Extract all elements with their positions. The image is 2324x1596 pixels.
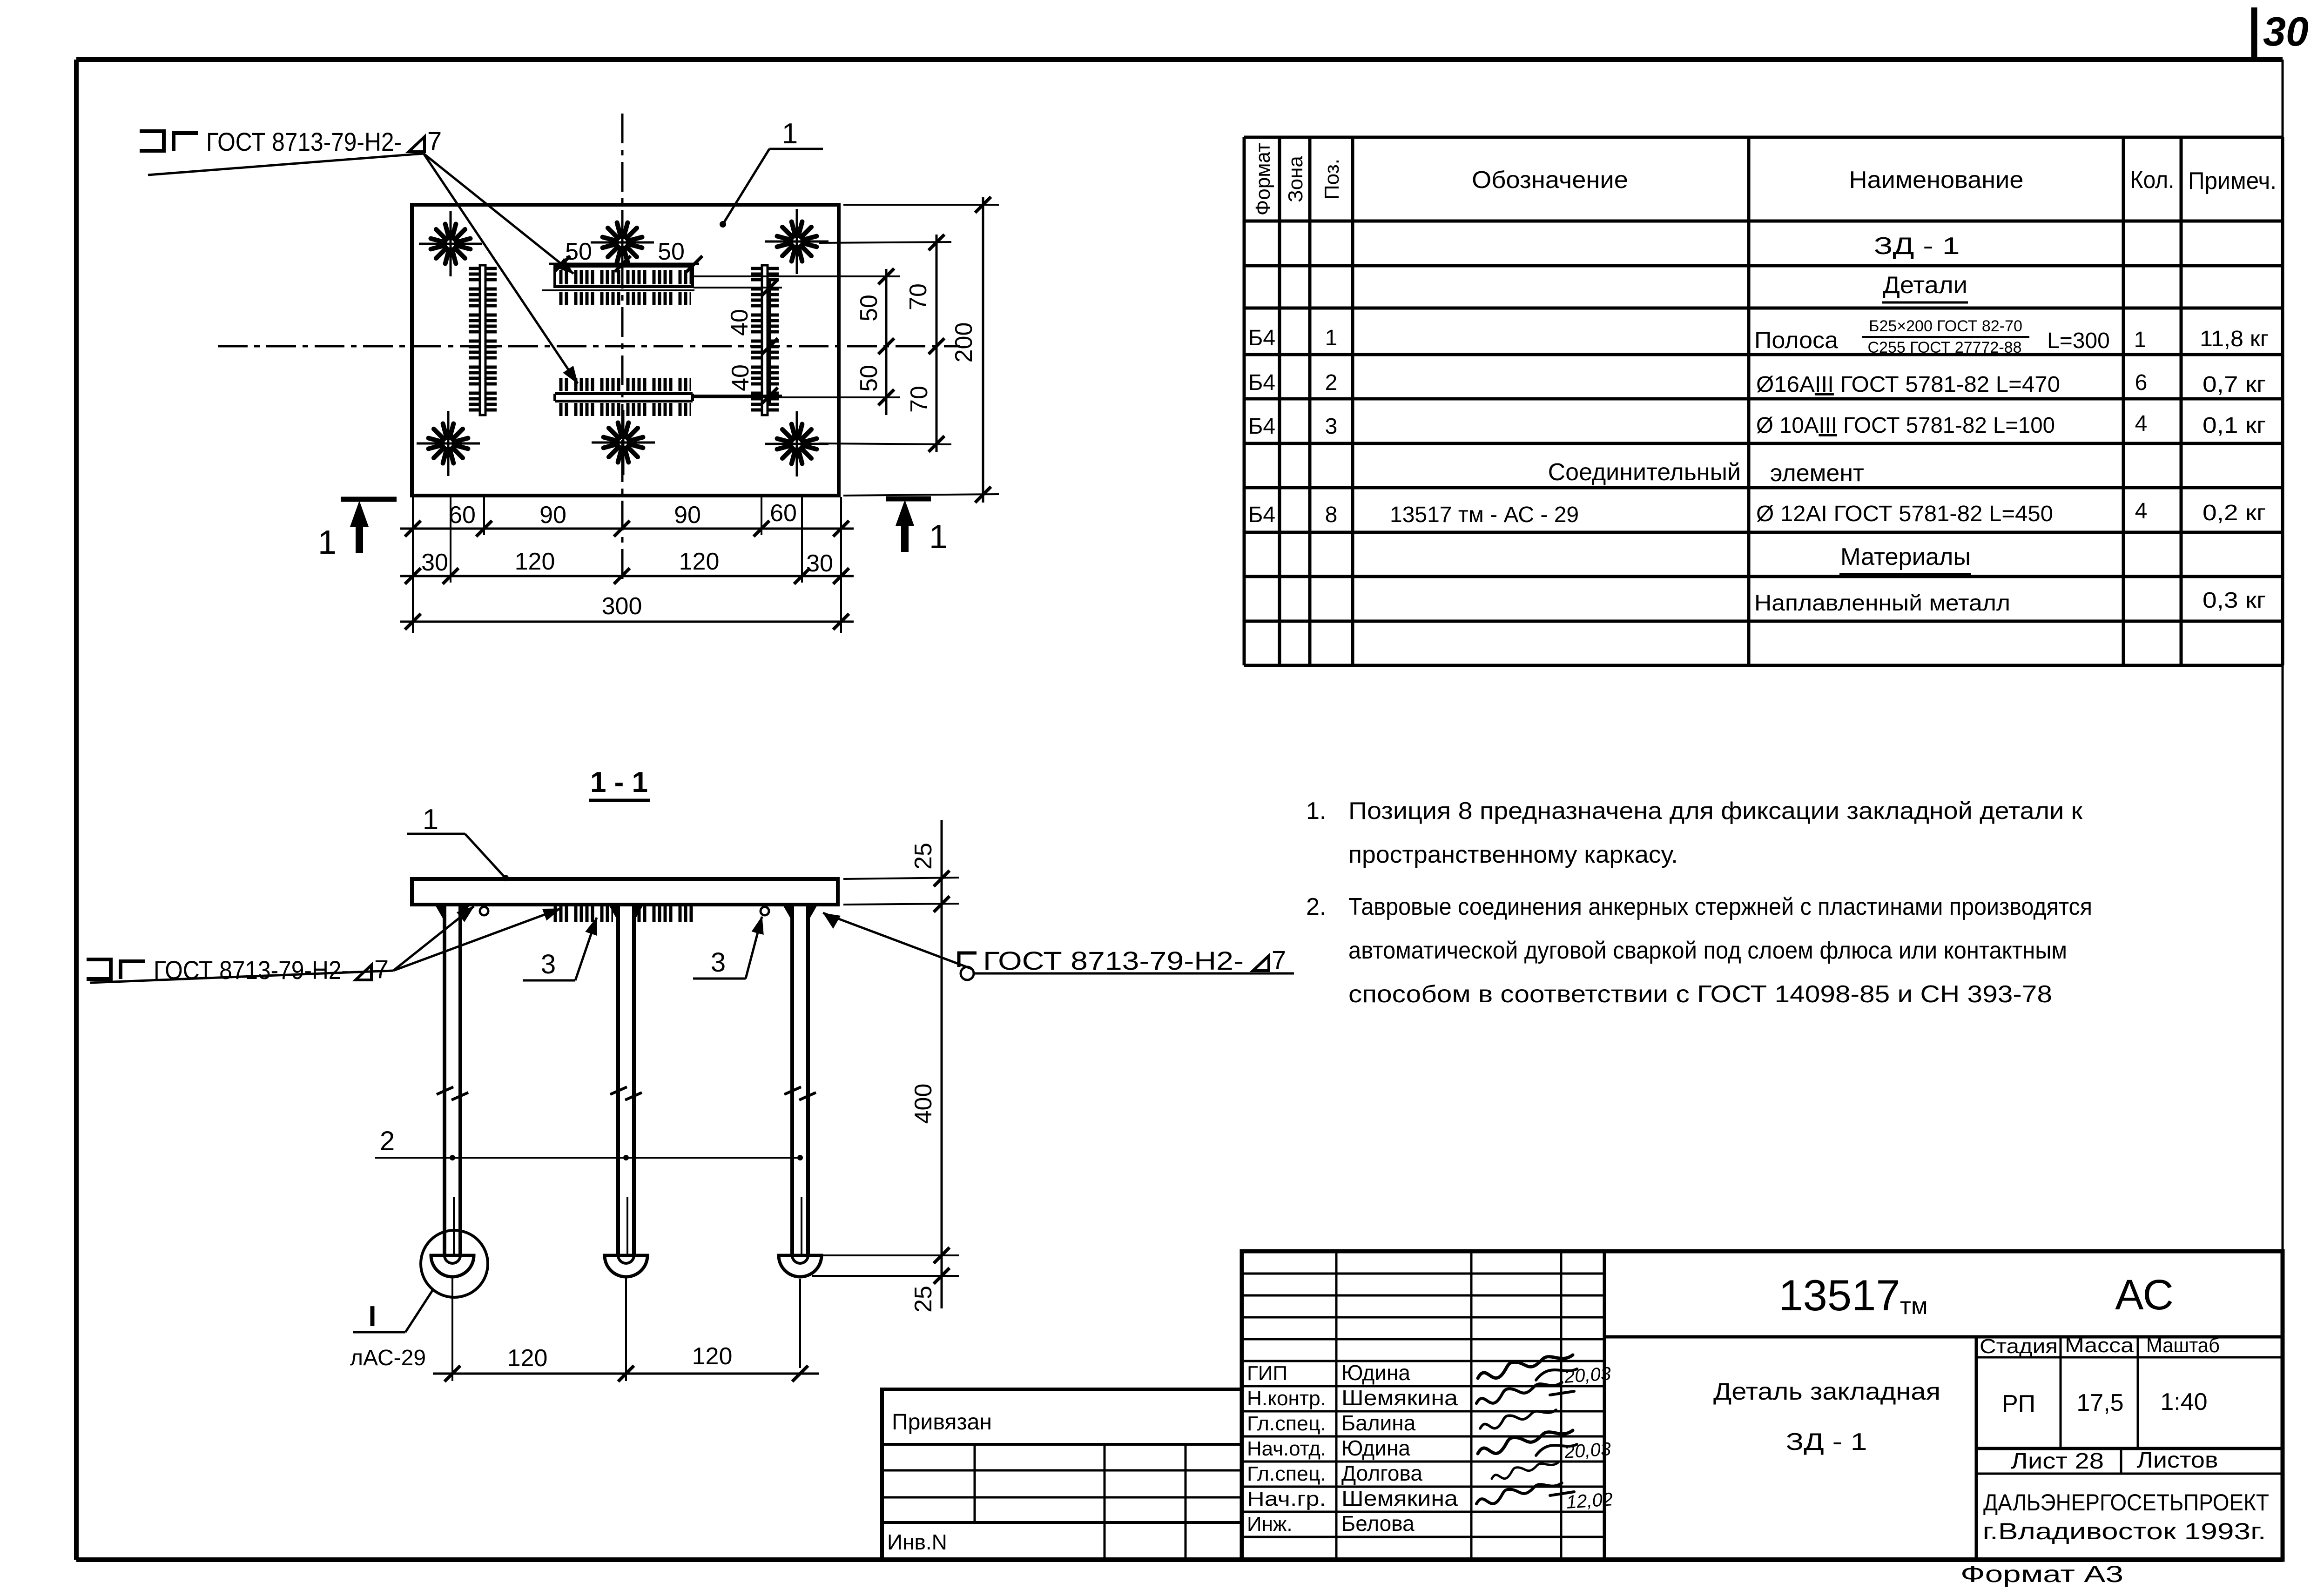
svg-text:60: 60: [449, 502, 476, 529]
dimension row 30 120 120 30: [400, 548, 854, 584]
svg-text:ГОСТ 8713-79-Н2-: ГОСТ 8713-79-Н2-: [983, 946, 1244, 975]
signature dates: [1563, 1363, 1614, 1513]
svg-text:1: 1: [929, 518, 948, 556]
svg-text:6: 6: [2135, 370, 2148, 395]
stage mass scale grid: [1976, 1334, 2283, 1560]
leader callout 2 anchor rods: [375, 1126, 803, 1160]
spec row Detali: [1882, 272, 1968, 302]
svg-text:4: 4: [2135, 411, 2148, 436]
title block outer frame: [1242, 1251, 2283, 1560]
svg-text:120: 120: [515, 548, 555, 575]
svg-text:Б4: Б4: [1248, 326, 1275, 350]
spec row materials header: [1839, 543, 1971, 574]
svg-text:4: 4: [2135, 499, 2148, 523]
specification table grid: [1244, 137, 2283, 665]
section bottom dimension 120 120: [433, 1277, 819, 1381]
svg-text:Привязан: Привязан: [892, 1410, 992, 1435]
svg-text:Б4: Б4: [1248, 503, 1275, 527]
svg-text:60: 60: [770, 500, 797, 527]
weld designation GOST 8713-79-N2-d7 section left: [87, 906, 560, 985]
anchor rod poz.2 end symbol 6: [765, 411, 829, 476]
svg-text:200: 200: [950, 322, 977, 363]
detail circle I with label lAS-29: [350, 1230, 488, 1370]
svg-text:Примеч.: Примеч.: [2188, 168, 2277, 194]
anchor head rod 3: [779, 1255, 822, 1277]
anchor rod poz.2 number 2 section: [609, 905, 643, 1264]
svg-text:0,1 кг: 0,1 кг: [2203, 413, 2266, 438]
note 2: [1306, 893, 2092, 1008]
leader callout 1 plate section: [407, 804, 509, 881]
svg-text:1: 1: [318, 524, 337, 561]
svg-text:7: 7: [427, 126, 442, 155]
bar poz.3 left vertical with weld hatch: [469, 265, 497, 415]
note 1: [1306, 798, 2082, 868]
svg-text:Б4: Б4: [1248, 414, 1275, 439]
svg-text:Детали: Детали: [1883, 272, 1967, 299]
anchor head rod 2: [605, 1255, 647, 1277]
svg-text:Инв.N: Инв.N: [887, 1530, 947, 1554]
title block signature roles and names: [1247, 1361, 1458, 1536]
plate poz.1 plan view outline: [412, 205, 839, 496]
weld designation GOST 8713-79-N2-d7 section right: [823, 913, 1294, 980]
svg-text:70: 70: [905, 283, 932, 310]
section mark 1 left: [318, 499, 397, 561]
svg-text:1 - 1: 1 - 1: [590, 766, 648, 798]
svg-text:2: 2: [380, 1126, 395, 1156]
svg-text:Формат: Формат: [1252, 143, 1274, 215]
dimension 300 overall bottom: [400, 593, 854, 630]
dimension row 60 90 90 60: [400, 500, 854, 536]
svg-text:25: 25: [910, 1286, 937, 1313]
svg-text:Зона: Зона: [1284, 156, 1307, 202]
svg-text:1.: 1.: [1306, 798, 1326, 825]
svg-text:300: 300: [602, 593, 642, 620]
svg-text:Нач.отд.: Нач.отд.: [1247, 1437, 1326, 1460]
anchor rod poz.2 number 3 section: [783, 905, 817, 1264]
title detail zakladnaya ZD-1: [1713, 1378, 1940, 1455]
svg-text:тм: тм: [1900, 1293, 1928, 1320]
svg-text:7: 7: [374, 954, 389, 984]
anchor rod poz.2 end symbol 2: [591, 210, 654, 275]
spec table headers: [1252, 143, 2277, 215]
svg-text:50: 50: [856, 365, 882, 392]
svg-text:3: 3: [541, 949, 556, 979]
svg-text:20,03: 20,03: [1563, 1363, 1612, 1387]
svg-text:способом в соответствии с ГОС: способом в соответствии с ГОСТ 14098-85 …: [1348, 981, 2052, 1008]
svg-text:Нач.гр.: Нач.гр.: [1247, 1488, 1326, 1510]
svg-text:1: 1: [423, 804, 438, 836]
svg-text:Наименование: Наименование: [1849, 167, 2024, 194]
svg-text:17,5: 17,5: [2076, 1389, 2123, 1416]
svg-text:40: 40: [727, 364, 754, 391]
svg-text:0,3 кг: 0,3 кг: [2203, 588, 2266, 613]
anchor rod poz.2 end symbol 5: [592, 410, 655, 475]
svg-text:1: 1: [782, 118, 798, 150]
svg-text:50: 50: [658, 238, 685, 265]
dimension 70 70 right side: [819, 235, 951, 452]
svg-text:20,03: 20,03: [1563, 1439, 1612, 1462]
svg-text:Стадия: Стадия: [1980, 1335, 2058, 1358]
bar poz.3 bottom horizontal with weld hatch: [555, 378, 693, 416]
svg-text:Материалы: Материалы: [1840, 543, 1971, 570]
svg-text:Балина: Балина: [1341, 1411, 1416, 1435]
svg-text:90: 90: [539, 502, 566, 529]
svg-text:ДАЛЬЭНЕРГОСЕТЬПРОЕКТ: ДАЛЬЭНЕРГОСЕТЬПРОЕКТ: [1983, 1489, 2269, 1516]
left attachment table: [882, 1389, 1242, 1560]
svg-text:400: 400: [910, 1084, 937, 1124]
plan horizontal centerline: [218, 345, 960, 348]
section right dimension chain 25 400 25: [812, 820, 959, 1313]
svg-text:Формат А3: Формат А3: [1960, 1561, 2123, 1587]
svg-text:лАС-29: лАС-29: [350, 1346, 426, 1370]
section title 1-1: [589, 766, 650, 800]
svg-text:Ø 10АIII ГОСТ 5781-82 L=100: Ø 10АIII ГОСТ 5781-82 L=100: [1756, 413, 2055, 438]
svg-text:Гл.спец.: Гл.спец.: [1247, 1412, 1326, 1435]
svg-text:30: 30: [2263, 8, 2309, 54]
svg-text:Лист 28: Лист 28: [2011, 1449, 2104, 1474]
signatures handwritten: [1476, 1355, 1577, 1504]
svg-text:3: 3: [1325, 414, 1338, 439]
svg-text:ЗД - 1: ЗД - 1: [1874, 233, 1960, 260]
svg-text:Ø 12АI ГОСТ 5781-82 L=450: Ø 12АI ГОСТ 5781-82 L=450: [1756, 502, 2053, 526]
svg-text:50: 50: [565, 238, 592, 265]
document number 13517 tm: [1778, 1271, 1927, 1320]
svg-text:Обозначение: Обозначение: [1472, 167, 1628, 194]
svg-text:90: 90: [674, 502, 701, 529]
svg-text:2: 2: [1325, 370, 1338, 395]
svg-text:Позиция 8 предназначена для фи: Позиция 8 предназначена для фиксации зак…: [1348, 798, 2082, 825]
dimension 50 50 right side: [694, 268, 900, 415]
svg-text:пространственному каркасу.: пространственному каркасу.: [1348, 841, 1678, 868]
weld point circle right: [761, 907, 769, 915]
section mark 1 right: [886, 499, 948, 556]
svg-text:8: 8: [1325, 503, 1338, 527]
title block signature grid: [1242, 1251, 1604, 1560]
svg-text:3: 3: [711, 947, 726, 978]
svg-text:12,02: 12,02: [1566, 1489, 1614, 1513]
svg-text:Маштаб: Маштаб: [2146, 1334, 2220, 1357]
svg-text:Б4: Б4: [1248, 370, 1275, 395]
svg-text:Наплавленный металл: Наплавленный металл: [1754, 591, 2010, 616]
leader callout 3 right: [693, 917, 762, 979]
organization name: [1983, 1489, 2270, 1544]
svg-text:Кол.: Кол.: [2130, 167, 2175, 194]
bar poz.3 left section with weld hatch: [552, 906, 613, 922]
anchor rod poz.2 end symbol 4: [417, 411, 480, 476]
svg-text:30: 30: [806, 550, 833, 577]
leader callout 1 plate plan: [720, 118, 823, 228]
handwritten sheet number 30: [2254, 7, 2309, 60]
svg-text:1: 1: [2134, 328, 2147, 352]
svg-text:0,7 кг: 0,7 кг: [2203, 372, 2266, 397]
weld designation GOST 8713-79-N2-d7 plan: [140, 126, 578, 383]
svg-text:Юдина: Юдина: [1341, 1361, 1410, 1385]
svg-text:50: 50: [856, 295, 882, 322]
spec row bar poz.3: [1248, 411, 2266, 439]
svg-text:40: 40: [726, 309, 753, 336]
anchor rod poz.2 end symbol 3: [765, 209, 829, 274]
svg-text:Белова: Белова: [1341, 1511, 1415, 1536]
svg-text:Шемякина: Шемякина: [1341, 1486, 1458, 1510]
bar poz.3 top horizontal with weld hatch: [542, 266, 694, 305]
svg-text:L=300: L=300: [2047, 329, 2110, 353]
spec row rod poz.2: [1248, 370, 2266, 397]
svg-text:Шемякина: Шемякина: [1341, 1386, 1458, 1410]
svg-text:элемент: элемент: [1770, 460, 1864, 487]
svg-text:13517 тм - АС - 29: 13517 тм - АС - 29: [1390, 503, 1579, 527]
svg-text:13517: 13517: [1778, 1271, 1900, 1320]
bar poz.3 right vertical with weld hatch: [751, 265, 779, 415]
spec row connecting element header: [1548, 459, 1864, 487]
svg-text:Соединительный: Соединительный: [1548, 459, 1741, 486]
svg-text:I: I: [368, 1301, 376, 1333]
svg-text:г.Владивосток 1993г.: г.Владивосток 1993г.: [1983, 1518, 2266, 1544]
spec row polosa poz.1: [1248, 317, 2269, 356]
svg-text:Тавровые соединения анкерных с: Тавровые соединения анкерных стержней с …: [1348, 893, 2092, 920]
svg-text:Деталь закладная: Деталь закладная: [1713, 1378, 1940, 1405]
plan bottom extension lines: [413, 497, 841, 633]
svg-text:ЗД - 1: ЗД - 1: [1786, 1428, 1867, 1455]
plate poz.1 section: [412, 879, 838, 905]
anchor rod poz.2 end symbol 1: [419, 211, 482, 276]
svg-text:120: 120: [679, 548, 720, 575]
svg-text:2.: 2.: [1306, 893, 1326, 920]
svg-text:70: 70: [906, 386, 933, 413]
svg-text:Листов: Листов: [2137, 1448, 2218, 1473]
svg-text:1:40: 1:40: [2160, 1388, 2207, 1415]
dimension 50 50 top: [549, 238, 702, 272]
svg-text:25: 25: [910, 843, 937, 870]
svg-text:Долгова: Долгова: [1341, 1461, 1422, 1485]
plan vertical centerline: [621, 114, 624, 582]
dimension 200 overall right side: [843, 197, 999, 503]
svg-text:Масса: Масса: [2065, 1334, 2134, 1357]
spec row deposited metal: [1754, 588, 2266, 616]
svg-text:РП: РП: [2002, 1390, 2035, 1417]
spec row rod poz.8: [1248, 499, 2266, 527]
svg-text:ГИП: ГИП: [1247, 1362, 1287, 1385]
svg-text:автоматической дуговой сваркой: автоматической дуговой сваркой под слоем…: [1348, 937, 2067, 964]
dimension 40 40 with extension lines: [694, 279, 782, 404]
svg-text:Н.контр.: Н.контр.: [1247, 1387, 1326, 1410]
svg-text:120: 120: [507, 1345, 548, 1372]
svg-text:ГОСТ 8713-79-Н2-: ГОСТ 8713-79-Н2-: [206, 127, 402, 156]
svg-text:Инж.: Инж.: [1247, 1513, 1293, 1536]
weld point circle left: [480, 907, 488, 915]
svg-text:0,2 кг: 0,2 кг: [2203, 501, 2266, 525]
svg-text:Ø16АIII ГОСТ 5781-82 L=470: Ø16АIII ГОСТ 5781-82 L=470: [1756, 372, 2060, 397]
svg-text:7: 7: [1272, 945, 1286, 974]
svg-text:Поз.: Поз.: [1320, 159, 1343, 200]
svg-text:АС: АС: [2115, 1271, 2174, 1319]
anchor rod poz.2 number 1 section: [436, 905, 469, 1264]
svg-text:ГОСТ 8713-79-Н2-: ГОСТ 8713-79-Н2-: [154, 955, 349, 985]
svg-text:Б25×200 ГОСТ 82-70: Б25×200 ГОСТ 82-70: [1869, 317, 2022, 335]
anchor head rod 1: [431, 1255, 474, 1277]
leader callout 3 left: [523, 918, 597, 980]
bar poz.3 right section with weld hatch: [633, 906, 694, 922]
svg-text:С255 ГОСТ 27772-88: С255 ГОСТ 27772-88: [1867, 339, 2021, 356]
svg-text:1: 1: [1325, 326, 1338, 350]
svg-text:30: 30: [421, 549, 448, 576]
svg-text:Полоса: Полоса: [1754, 327, 1838, 353]
svg-text:11,8 кг: 11,8 кг: [2200, 327, 2269, 351]
svg-text:Гл.спец.: Гл.спец.: [1247, 1462, 1326, 1485]
svg-text:Юдина: Юдина: [1341, 1436, 1410, 1460]
svg-text:120: 120: [692, 1343, 733, 1370]
